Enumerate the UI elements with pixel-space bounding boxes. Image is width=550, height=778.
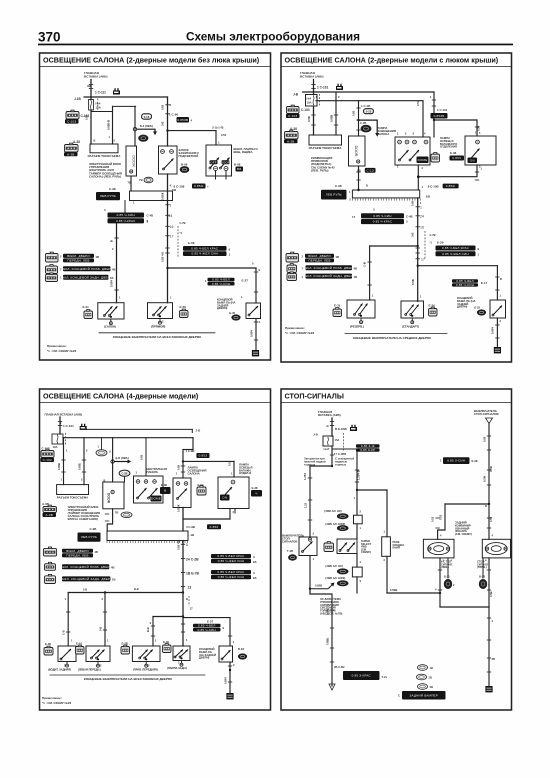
wire to luggage lamp p3 xyxy=(183,460,234,462)
wire to slip ring pin 2 xyxy=(112,106,114,144)
svg-text:G-45: G-45 xyxy=(229,311,236,315)
svg-text:ПЕРЕДН. ЛЕВ: ПЕРЕДН. ЛЕВ xyxy=(66,553,88,557)
svg-text:ЗАДНИЙ БАМПЕР: ЗАДНИЙ БАМПЕР xyxy=(410,693,438,697)
svg-text:С-4В: С-4В xyxy=(147,214,154,218)
svg-text:1 С-90: 1 С-90 xyxy=(169,113,178,117)
resistor lower p4 xyxy=(352,567,362,577)
svg-text:1В: 1В xyxy=(112,578,116,582)
svg-text:DOOR: DOOR xyxy=(221,160,231,164)
svg-text:0.5В: 0.5В xyxy=(411,279,415,285)
wire to tailgate switch p2 xyxy=(418,265,498,267)
wire to luggage lamp p2 xyxy=(434,119,477,121)
junction p3 second rail xyxy=(182,615,184,617)
junction bus / rear door branch xyxy=(166,267,168,269)
svg-text:0.85В: 0.85В xyxy=(315,584,322,588)
bus ticks p4 xyxy=(330,421,334,423)
svg-text:РАЗЪЕМ ТОКОСЪЕМА: РАЗЪЕМ ТОКОСЪЕМА xyxy=(57,496,88,500)
svg-text:J-В: J-В xyxy=(293,93,299,97)
svg-text:ЕНИЯ: ЕНИЯ xyxy=(393,546,400,550)
left connector icon row 2 xyxy=(46,266,58,274)
svg-text:DOOR: DOOR xyxy=(107,493,111,504)
svg-text:В-08: В-08 xyxy=(234,163,241,167)
svg-text:1В: 1В xyxy=(253,560,257,564)
wire main bus lower xyxy=(167,174,169,303)
svg-text:(ЛЕВ. РУЛЬ): (ЛЕВ. РУЛЬ) xyxy=(311,168,329,172)
left connector icon row 1 p2 xyxy=(286,254,299,263)
svg-text:0.85 Ч-ЖЕЛ СИН: 0.85 Ч-ЖЕЛ СИН xyxy=(218,575,245,579)
wire to right tail lamp p4 xyxy=(488,504,490,539)
svg-text:№17: №17 xyxy=(324,447,330,451)
luggage lamp box p2 xyxy=(465,136,496,165)
wire to door p3 xyxy=(112,438,114,462)
svg-text:С-10З: С-10З xyxy=(288,114,297,118)
wire jog p3 xyxy=(183,518,230,520)
svg-text:С-102: С-102 xyxy=(43,458,52,462)
svg-text:А-38: А-38 xyxy=(290,127,297,131)
svg-text:З: З xyxy=(253,555,255,559)
wire to rear connector p4 xyxy=(310,589,332,686)
2.4 xyxy=(306,265,353,270)
svg-text:С-В: С-В xyxy=(62,630,66,635)
svg-text:В: В xyxy=(60,421,62,425)
svg-text:Е-38: Е-38 xyxy=(252,486,258,490)
left connector icon row 3 p2 xyxy=(287,273,297,280)
wire dome lamp to JB p2 xyxy=(417,165,419,190)
svg-text:В: В xyxy=(485,504,487,508)
glovebox lamp switch box xyxy=(206,145,232,176)
wire tailgate switch to ground p3 xyxy=(229,662,231,693)
slip ring connector box p2 xyxy=(309,135,342,145)
svg-text:ВЫКЛ. КОНЦЕВОЙ ЗАДН. ДВЕРИ: ВЫКЛ. КОНЦЕВОЙ ЗАДН. ДВЕРИ xyxy=(302,274,355,278)
diode box p4 xyxy=(382,537,391,557)
svg-text:24 С-2В: 24 С-2В xyxy=(186,558,199,562)
svg-text:З-В: З-В xyxy=(411,233,415,237)
2.2 xyxy=(210,160,218,164)
svg-text:(СМ. СХЕМУ): (СМ. СХЕМУ) xyxy=(455,532,472,536)
svg-text:1 С-9В: 1 С-9В xyxy=(186,449,195,453)
svg-text:С-98: С-98 xyxy=(335,184,342,188)
2.4 xyxy=(305,254,334,258)
svg-text:Т-4В: Т-4В xyxy=(287,549,293,553)
dome lamp p2 xyxy=(347,300,375,318)
left connector icon row 1 p3 xyxy=(43,548,56,556)
svg-text:Примечание:: Примечание: xyxy=(285,326,305,330)
2.4 xyxy=(62,553,93,557)
svg-text:1В: 1В xyxy=(354,275,358,279)
svg-text:Е-17: Е-17 xyxy=(481,281,488,285)
svg-text:Е-01: Е-01 xyxy=(83,305,90,309)
svg-text:1: 1 xyxy=(420,206,422,210)
svg-text:0.85Б-В: 0.85Б-В xyxy=(107,120,111,130)
svg-text:0-В: 0-В xyxy=(99,627,103,631)
connector C-111 icon xyxy=(113,88,120,94)
2.3 xyxy=(151,496,162,502)
svg-text:DOME: DOME xyxy=(418,158,428,162)
relay box p4 xyxy=(337,539,357,554)
2.4 xyxy=(211,559,251,563)
junction p2 lamp1 branch xyxy=(417,245,419,247)
svg-text:0.85Б: 0.85Б xyxy=(78,463,82,470)
bracket line p3 xyxy=(50,674,205,676)
2.2 xyxy=(222,160,230,164)
svg-text:16: 16 xyxy=(420,226,424,230)
white connector label p2 door xyxy=(364,109,374,114)
svg-text:(4WD А/С ОФФ): (4WD А/С ОФФ) xyxy=(325,576,345,580)
wire 2 to slip ring p2 xyxy=(335,92,337,135)
oval on door wire p3 xyxy=(121,512,132,518)
2.5 xyxy=(361,213,404,218)
2.2 xyxy=(356,444,380,448)
2.6 xyxy=(96,192,120,200)
svg-text:Е-29: Е-29 xyxy=(437,241,444,245)
open arrow end p4 xyxy=(329,684,335,690)
dome lamp front p3 xyxy=(86,646,110,662)
svg-text:OFF: OFF xyxy=(210,160,217,164)
tailgate switch box xyxy=(246,303,261,319)
junction p2 door branch xyxy=(357,119,359,121)
2.3 xyxy=(208,282,235,286)
arrow to door xyxy=(137,129,155,133)
svg-text:4В: 4В xyxy=(95,550,99,554)
fuse №4 10A p2 xyxy=(306,95,318,107)
svg-text:(СТАНДАРТ): (СТАНДАРТ) xyxy=(402,325,419,329)
svg-text:0.85 Ч-БЕЛ КРАС: 0.85 Ч-БЕЛ КРАС xyxy=(217,570,245,574)
junction p4 relay rail xyxy=(356,489,358,491)
svg-text:G-25: G-25 xyxy=(474,306,481,310)
svg-text:2В: 2В xyxy=(429,676,432,680)
junction p4 abs branch xyxy=(309,588,311,590)
svg-text:0.85 Ч-КРАС: 0.85 Ч-КРАС xyxy=(116,219,136,223)
svg-text:(САЛОН): (САЛОН) xyxy=(104,325,116,329)
svg-text:В-В: В-В xyxy=(146,627,150,632)
2.4 xyxy=(63,275,109,280)
svg-text:С-4В: С-4В xyxy=(406,215,413,219)
svg-text:17: 17 xyxy=(421,258,425,262)
svg-text:0.85Ч: 0.85Ч xyxy=(250,330,254,337)
dashed bracket fuse p3 xyxy=(65,433,67,445)
svg-text:С-7В: С-7В xyxy=(180,221,186,225)
2.3 xyxy=(193,628,221,632)
stop light switch box p4 xyxy=(299,537,317,556)
wire to diode p4 xyxy=(386,490,388,537)
svg-text:0.85 З-КРАС: 0.85 З-КРАС xyxy=(352,674,372,678)
dashed bracket fuse p2 xyxy=(319,94,321,107)
2.4 xyxy=(62,576,110,581)
left connector icon row 3 xyxy=(46,274,58,281)
svg-text:0.5Ж: 0.5Ж xyxy=(489,465,493,472)
wire battery p2 xyxy=(313,80,315,95)
svg-text:СТОП-СИГНАЛЫ: СТОП-СИГНАЛЫ xyxy=(285,392,344,401)
ground body p3 xyxy=(226,693,233,699)
junction p2 right branch xyxy=(417,265,419,267)
svg-text:8 С-10В: 8 С-10В xyxy=(428,185,439,189)
arrow p3 xyxy=(114,461,128,463)
svg-text:ОСВЕЩЕНИЕ САЛОНА (4-дверные мо: ОСВЕЩЕНИЕ САЛОНА (4-дверные модели) xyxy=(43,392,199,401)
wire to rear door switch xyxy=(168,267,257,269)
svg-text:(4WD А/С НО): (4WD А/С НО) xyxy=(324,509,341,513)
svg-text:370: 370 xyxy=(38,30,61,45)
panel 2 frame xyxy=(281,53,512,362)
ground oval G-25 p2 xyxy=(477,310,485,315)
svg-text:0.85ЗВ: 0.85ЗВ xyxy=(434,114,445,118)
wire relay feed p4 xyxy=(356,452,358,491)
svg-text:(ВОДИТ. ЗАДНЯЯ): (ВОДИТ. ЗАДНЯЯ) xyxy=(48,668,71,672)
svg-text:24: 24 xyxy=(420,215,424,219)
wire battery to fuse xyxy=(90,80,92,100)
svg-text:№4: №4 xyxy=(307,97,312,101)
connector oval C-28 p2 door xyxy=(361,125,371,132)
svg-text:С-103: С-103 xyxy=(301,108,310,112)
connector B-06 dark oval xyxy=(180,167,189,173)
wire to ground p2 xyxy=(496,318,498,347)
svg-text:С: С xyxy=(398,694,400,698)
fuse №17 15A p4 xyxy=(323,436,333,446)
svg-text:0.85В: 0.85В xyxy=(330,115,334,122)
wire battery p4 xyxy=(331,418,333,436)
svg-text:Е-28: Е-28 xyxy=(180,305,187,309)
svg-text:0.85 Ч-СИН: 0.85 Ч-СИН xyxy=(456,283,474,287)
svg-text:(ПРАВ.): (ПРАВ.) xyxy=(477,565,487,569)
wire upper jog p3 xyxy=(81,428,192,430)
connector C-101 icon p2 xyxy=(336,84,343,90)
svg-text:7В: 7В xyxy=(128,181,131,185)
svg-text:(РЕЗЕРВ.): (РЕЗЕРВ.) xyxy=(350,325,364,329)
svg-text:Е-31: Е-31 xyxy=(334,304,341,308)
door switch box rear-left p3 xyxy=(58,646,76,662)
slip ring connector box xyxy=(90,144,118,153)
2.2 xyxy=(356,448,380,452)
svg-text:В-15: В-15 xyxy=(444,575,450,579)
wire to left tail lamp p4 xyxy=(438,504,445,539)
bracket line p2 xyxy=(345,333,447,335)
svg-text:0.8ВБ: 0.8ВБ xyxy=(326,638,330,645)
svg-text:0.5З: 0.5З xyxy=(439,514,443,520)
svg-text:С-В: С-В xyxy=(363,262,367,267)
wire to dome lamp sw 2 p2 xyxy=(433,92,435,120)
wires key switch to bus p3 xyxy=(192,438,194,450)
dashed bracket fuse p1 xyxy=(97,99,99,112)
svg-text:4В: 4В xyxy=(336,255,340,259)
2.5 xyxy=(361,219,404,224)
svg-text:Т-2х: Т-2х xyxy=(382,675,388,679)
ground stub left p4 xyxy=(447,558,449,578)
svg-text:0.85: 0.85 xyxy=(85,114,89,120)
svg-text:Примечание:: Примечание: xyxy=(47,344,67,348)
svg-text:ВЫКЛ. КОНЦЕВОЙ ПРАВ. ДВЕРИ: ВЫКЛ. КОНЦЕВОЙ ПРАВ. ДВЕРИ xyxy=(59,565,112,569)
svg-text:*1 : СМ. СХЕМУ №23: *1 : СМ. СХЕМУ №23 xyxy=(47,349,76,353)
wire slip ring 1 p3 xyxy=(63,438,65,485)
DOOR box xyxy=(126,146,137,176)
svg-text:ДВЕРИ): ДВЕРИ) xyxy=(217,306,227,310)
2.4 xyxy=(63,266,111,271)
svg-text:ON: ON xyxy=(470,158,475,162)
map lamp xyxy=(148,303,173,319)
2.4 xyxy=(211,554,251,558)
svg-text:(ЛЕВАЯ ПЕРЕДН.): (ЛЕВАЯ ПЕРЕДН.) xyxy=(78,668,101,672)
svg-text:ВЫКЛ. КОНЦЕВОЙ ПРАВ. ДВЕРИ: ВЫКЛ. КОНЦЕВОЙ ПРАВ. ДВЕРИ xyxy=(302,266,355,270)
svg-text:0.85Ж: 0.85Ж xyxy=(177,504,181,512)
connector C-101 icon p3 xyxy=(80,424,87,430)
svg-text:А-3В: А-3В xyxy=(46,513,53,517)
svg-text:0.85З: 0.85З xyxy=(199,454,208,458)
DOOR box p2 xyxy=(349,136,366,166)
svg-text:Е-27: Е-27 xyxy=(242,279,249,283)
wire to glovebox lamp switch xyxy=(168,130,217,132)
svg-text:0.5Ж: 0.5Ж xyxy=(483,475,487,482)
bus ticks p3 xyxy=(181,543,185,545)
svg-text:Схемы электрооборудования: Схемы электрооборудования xyxy=(186,30,360,44)
svg-text:(ПРАВ. ПЕРЕДНЯЯ): (ПРАВ. ПЕРЕДНЯЯ) xyxy=(133,668,158,672)
panel 1 title underline xyxy=(40,66,271,68)
left connector icon row 2 p3 xyxy=(45,564,56,571)
svg-text:ДВЕРИ): ДВЕРИ) xyxy=(457,305,467,309)
svg-text:0.85З: 0.85З xyxy=(210,525,219,529)
svg-text:ON: ON xyxy=(222,496,227,500)
svg-text:А-3В: А-3В xyxy=(67,152,74,156)
svg-text:СХЕМУ): СХЕМУ) xyxy=(361,550,371,554)
svg-text:0.85 Ч-ЖЕЛ СИН: 0.85 Ч-ЖЕЛ СИН xyxy=(191,252,218,256)
dome lamp (салон) xyxy=(98,303,124,319)
2.4 xyxy=(211,570,251,574)
ground body p2 xyxy=(494,347,501,353)
svg-text:0.85 Ч-Б: 0.85 Ч-Б xyxy=(161,252,165,262)
2.4 xyxy=(211,575,251,579)
svg-text:1 С-101: 1 С-101 xyxy=(63,424,74,428)
2.5 xyxy=(78,533,101,542)
svg-text:0.85 Ч-КРАС: 0.85 Ч-КРАС xyxy=(373,220,393,224)
svg-text:17: 17 xyxy=(352,215,356,219)
DOOR box p3 xyxy=(103,482,124,509)
svg-text:17: 17 xyxy=(170,235,174,239)
wire top bus p2 xyxy=(303,91,435,93)
svg-text:*1 : СМ. СХЕМУ №23: *1 : СМ. СХЕМУ №23 xyxy=(42,701,71,705)
wire tailgate switch to ground xyxy=(255,319,257,351)
panel 1 frame xyxy=(40,53,271,360)
svg-text:1: 1 xyxy=(170,204,172,208)
wire right branch p3 xyxy=(183,617,230,619)
svg-text:0-18: 0-18 xyxy=(144,115,150,119)
svg-text:J/B: J/B xyxy=(426,195,430,199)
ground stub right p4 xyxy=(482,558,484,578)
svg-text:0.85 Ч-Б: 0.85 Ч-Б xyxy=(177,540,181,550)
svg-text:0.85Ч: 0.85Ч xyxy=(110,280,114,287)
wire junction to door p3 xyxy=(112,463,114,482)
ignition key switch box p3 xyxy=(173,478,191,508)
svg-text:В-В: В-В xyxy=(134,587,139,591)
dome lamp assembly box p2 xyxy=(395,137,430,165)
wire to rear ground p4 xyxy=(488,607,490,686)
svg-text:J-1B: J-1B xyxy=(74,97,82,101)
svg-text:ОТДЕЛЕНИЯ: ОТДЕЛЕНИЯ xyxy=(440,145,457,149)
svg-text:0.85 Ч-БЕЛ КРАС: 0.85 Ч-БЕЛ КРАС xyxy=(442,246,470,250)
svg-text:0.5З: 0.5З xyxy=(489,516,493,522)
2.4 xyxy=(62,564,109,569)
header rule xyxy=(38,44,513,46)
svg-text:1 С-111: 1 С-111 xyxy=(95,91,106,95)
oval C-28 p3 xyxy=(119,470,130,476)
svg-text:САЛОНА: САЛОНА xyxy=(377,132,389,136)
svg-text:ВЫКЛ. ДВЕРИ: ВЫКЛ. ДВЕРИ xyxy=(308,254,330,258)
small oval connectors p4 xyxy=(418,665,428,671)
svg-text:1В: 1В xyxy=(110,276,114,280)
2.6 xyxy=(443,457,470,464)
svg-text:В: В xyxy=(186,597,188,601)
svg-text:0.85: 0.85 xyxy=(177,464,181,470)
wire right main p4 xyxy=(488,424,490,505)
wire main bus p2 xyxy=(417,198,419,302)
left connector icon row 2 p2 xyxy=(287,265,297,273)
svg-text:В-3 (ЛЕВ.): В-3 (ЛЕВ.) xyxy=(140,124,153,128)
svg-text:0.5З: 0.5З xyxy=(221,133,227,137)
arrow p2 door xyxy=(359,120,378,134)
svg-text:В: В xyxy=(110,240,114,242)
wire battery p3 xyxy=(59,417,61,434)
panel 4 title underline xyxy=(281,402,512,404)
svg-text:В: В xyxy=(104,479,106,483)
triangle symbol p4 xyxy=(486,418,493,424)
svg-text:ПЕРЕДН. ЛЕВ: ПЕРЕДН. ЛЕВ xyxy=(308,258,330,262)
svg-text:0.85: 0.85 xyxy=(140,454,144,460)
2.4 xyxy=(417,157,429,164)
svg-text:С-10З: С-10З xyxy=(67,120,76,124)
svg-text:1 С-1В: 1 С-1В xyxy=(361,104,370,108)
2.4 xyxy=(63,258,94,262)
svg-text:ВЫКЛ. ДВЕРИ: ВЫКЛ. ДВЕРИ xyxy=(67,254,89,258)
wire to door switch xyxy=(134,106,136,146)
svg-text:1 С-101: 1 С-101 xyxy=(317,86,328,90)
svg-text:0.5В: 0.5В xyxy=(307,116,311,122)
map lamp p2 xyxy=(401,301,424,318)
svg-text:РАЗЪЕМ ТОКОСЪЕМА: РАЗЪЕМ ТОКОСЪЕМА xyxy=(88,154,122,158)
white connector label p1 door xyxy=(142,114,152,119)
svg-text:ВЫКЛ. ДВЕРИ: ВЫКЛ. ДВЕРИ xyxy=(66,549,88,553)
2.5 xyxy=(160,487,171,494)
svg-text:1В: 1В xyxy=(430,666,433,670)
junction p2 right xyxy=(433,119,435,121)
left connector icon row 1 xyxy=(46,254,59,263)
svg-text:2В: 2В xyxy=(492,657,496,661)
junction main bus / glovebox branch xyxy=(166,129,168,131)
dashed bracket on bus xyxy=(177,226,179,258)
svg-text:1.25З: 1.25З xyxy=(303,473,307,480)
wire second bus p2 xyxy=(316,100,423,102)
2.5 xyxy=(436,251,476,256)
svg-text:1: 1 xyxy=(186,543,188,547)
dashed bracket p3 xyxy=(188,596,190,606)
svg-text:З-1(+1-Я): З-1(+1-Я) xyxy=(212,126,223,130)
svg-text:24: 24 xyxy=(169,214,173,218)
bus ticks p2 xyxy=(416,206,420,208)
svg-text:Е-38: Е-38 xyxy=(450,151,457,155)
svg-text:0.85ЗВ: 0.85ЗВ xyxy=(177,118,188,122)
connector A-38 icon xyxy=(65,145,79,153)
svg-text:0 В: 0 В xyxy=(83,588,87,592)
wire main bus below JB p3 xyxy=(182,541,184,593)
wire bus to lamp E-09 p3 xyxy=(182,593,184,647)
oval T-48 p4 xyxy=(289,555,297,561)
svg-text:В: В xyxy=(94,139,96,143)
svg-text:0.5З: 0.5З xyxy=(431,516,435,522)
panel 3 frame xyxy=(40,389,271,710)
svg-text:0.85: 0.85 xyxy=(411,200,415,206)
wire left branch p3 xyxy=(153,616,183,618)
svg-text:З: З xyxy=(253,571,255,575)
svg-text:1В: 1В xyxy=(253,576,257,580)
svg-text:DOME: DOME xyxy=(151,497,161,501)
svg-text:В: В xyxy=(366,184,368,188)
svg-text:1.25: 1.25 xyxy=(304,502,308,508)
svg-text:(АБС) (СМ. №7В): (АБС) (СМ. №7В) xyxy=(320,612,342,616)
